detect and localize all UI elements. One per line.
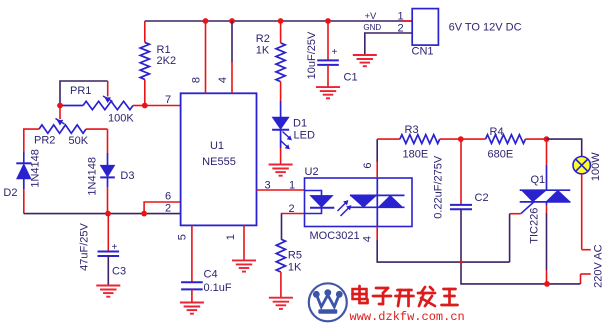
label U2 pin 2 xyxy=(289,203,295,215)
potentiometer PR1 wiper arrow xyxy=(103,96,113,103)
svg-text:CN1: CN1 xyxy=(412,46,434,58)
label CN1 xyxy=(412,46,434,58)
svg-text:C3: C3 xyxy=(112,266,126,278)
svg-text:D1: D1 xyxy=(293,118,307,130)
wire C2 top lead xyxy=(460,139,462,205)
label R3 xyxy=(405,124,419,136)
wire Q1 gate stub xyxy=(510,213,521,215)
svg-text:R5: R5 xyxy=(288,250,302,262)
potentiometer PR2 body xyxy=(39,125,108,133)
lamp 100W xyxy=(573,157,590,174)
label +V xyxy=(365,11,378,22)
svg-text:100K: 100K xyxy=(108,113,134,125)
node R3/R4/C2 junction xyxy=(458,136,464,142)
wire Q1 bottom dark xyxy=(546,205,548,270)
node pin6 branch junction xyxy=(141,211,147,217)
wire R5 bottom lead xyxy=(280,272,282,298)
node PR1 left junction xyxy=(57,103,63,109)
label pin 7 xyxy=(165,94,171,106)
label R5 xyxy=(288,250,302,274)
wire pin3 U1 to U2 xyxy=(257,189,305,191)
ground C1 xyxy=(316,87,340,98)
ground C4 xyxy=(180,303,204,314)
label U2 MOC3021 xyxy=(310,230,360,242)
resistor R4 xyxy=(486,135,526,144)
label GND xyxy=(363,23,381,32)
resistor R3 xyxy=(400,135,440,144)
ground D1 xyxy=(269,165,293,176)
ground CN1 xyxy=(353,55,377,66)
wire Q1 top red xyxy=(546,139,548,165)
wire D2 bottom lead xyxy=(23,179,25,214)
wire D2 top lead xyxy=(23,152,25,163)
ground C3 xyxy=(96,286,120,297)
LED D1 arrows xyxy=(281,132,292,150)
label U2 pin 4 xyxy=(362,236,374,242)
label R3 value xyxy=(403,149,429,161)
wire D1 bottom lead xyxy=(280,130,282,165)
wire pin1 xyxy=(243,225,245,260)
svg-text:C4: C4 xyxy=(204,269,218,281)
wire C2 bottom lead xyxy=(461,209,547,284)
svg-text:220V AC: 220V AC xyxy=(593,244,605,287)
svg-text:PR1: PR1 xyxy=(70,85,91,97)
svg-text:R2: R2 xyxy=(256,33,270,45)
connector CN1 body xyxy=(412,9,438,46)
wire C4 bottom lead xyxy=(191,289,193,302)
resistor R5 xyxy=(276,239,285,272)
wire R3 left lead xyxy=(377,138,400,140)
ground U1 pin1 xyxy=(232,260,256,271)
label R1 value xyxy=(157,44,177,67)
wire pin4 red xyxy=(231,62,233,93)
wire Q1 gate vertical xyxy=(509,214,511,262)
wire Q1 bottom red xyxy=(546,270,548,284)
svg-text:1: 1 xyxy=(289,180,295,192)
label U1 NE555 xyxy=(202,156,236,168)
label Q1 TIC226 xyxy=(529,208,541,244)
wire AC terminal 2 xyxy=(581,274,591,284)
svg-text:R4: R4 xyxy=(490,126,504,138)
label R4 xyxy=(490,126,504,138)
triac inside U2 xyxy=(350,178,405,227)
label pin 8 xyxy=(190,77,202,83)
svg-text:10uF/25V: 10uF/25V xyxy=(306,31,318,79)
svg-text:680E: 680E xyxy=(488,149,514,161)
op-amp U1 NE555 body xyxy=(181,93,257,225)
svg-text:2: 2 xyxy=(165,203,171,215)
opto-triac U2 MOC3021 body xyxy=(305,178,413,227)
label D3 xyxy=(120,170,134,182)
label pin 2 xyxy=(165,203,171,215)
node D3 junction xyxy=(105,211,111,217)
wire pin5 xyxy=(191,225,193,281)
wire +V top rail xyxy=(145,20,412,22)
node R4/Q1/lamp junction xyxy=(544,136,550,142)
svg-text:LED: LED xyxy=(294,130,315,142)
svg-text:47uF/25V: 47uF/25V xyxy=(78,222,90,270)
svg-text:C2: C2 xyxy=(475,192,489,204)
logo url xyxy=(350,310,465,324)
node bottom junction xyxy=(544,281,550,287)
label C3 value xyxy=(78,222,90,270)
label C3 xyxy=(112,266,126,278)
wire CN1 pin1 stub xyxy=(402,20,412,22)
wire R1 top lead xyxy=(144,21,146,42)
wire C1 bottom lead xyxy=(327,65,329,87)
wire R2 bottom lead xyxy=(280,82,282,117)
svg-text:6: 6 xyxy=(165,191,171,203)
wire PR2 wiper lead xyxy=(59,106,61,120)
capacitor C4 xyxy=(181,282,203,289)
svg-text:C1: C1 xyxy=(344,72,358,84)
wire U2 pin2 to R5 xyxy=(282,214,305,240)
svg-text:8: 8 xyxy=(190,77,202,83)
svg-text:4: 4 xyxy=(362,236,374,242)
svg-text:NE555: NE555 xyxy=(202,156,236,168)
svg-text:50K: 50K xyxy=(69,135,89,147)
svg-text:GND: GND xyxy=(363,23,381,32)
svg-text:TIC226: TIC226 xyxy=(529,208,541,244)
label D1 LED xyxy=(294,130,315,142)
wire R4 left lead xyxy=(461,138,486,140)
wire U2 pin6 red xyxy=(376,162,378,178)
svg-text:6V TO 12V DC: 6V TO 12V DC xyxy=(449,22,522,34)
triac Q1 xyxy=(520,190,571,205)
label R4 value xyxy=(488,149,514,161)
label PR1 value xyxy=(108,113,134,125)
LED emission arrows U2 xyxy=(338,201,352,217)
logo text dianzikaifawang xyxy=(353,286,458,306)
svg-text:D2: D2 xyxy=(3,187,17,199)
svg-text:U2: U2 xyxy=(305,166,319,178)
label D2 value 1N4148 xyxy=(30,149,42,188)
node rail junction R2 xyxy=(278,18,284,24)
svg-text:PR2: PR2 xyxy=(34,135,55,147)
node gate crossing dot xyxy=(459,261,462,264)
svg-text:1: 1 xyxy=(225,234,237,240)
wire pin7 to U1 xyxy=(145,105,181,107)
label U2 xyxy=(305,166,319,178)
wire R4 right lead xyxy=(525,138,546,140)
label C3 plus xyxy=(112,242,118,253)
svg-text:2: 2 xyxy=(398,23,404,35)
wire lamp bottom xyxy=(581,174,583,250)
label CN1 pin 2 xyxy=(398,23,404,35)
label pin 3 xyxy=(265,180,271,192)
label pin 4 xyxy=(217,77,229,83)
label PR2 xyxy=(34,135,55,147)
wire pin4 dark xyxy=(231,21,233,62)
label C1 plus xyxy=(332,47,338,58)
wire Q1 top blue xyxy=(546,165,548,190)
wire R2 top lead xyxy=(280,21,282,43)
label PR1 xyxy=(70,85,91,97)
wire R1 bottom lead xyxy=(144,79,146,105)
capacitor C1 xyxy=(317,60,339,65)
wire C3 top lead xyxy=(107,214,109,252)
label 220V AC xyxy=(593,244,605,287)
wire CN1 pin2 GND xyxy=(365,33,412,55)
wire PR2 left lead xyxy=(24,129,39,152)
wire pin6 branch xyxy=(144,202,181,214)
label U1 xyxy=(210,140,224,152)
svg-text:100W: 100W xyxy=(590,152,602,181)
svg-text:+: + xyxy=(332,47,338,58)
capacitor C2 xyxy=(450,205,472,209)
svg-text:Q1: Q1 xyxy=(531,174,546,186)
resistor R2 xyxy=(276,43,285,82)
label D2 xyxy=(3,187,17,199)
wire AC terminal 1 xyxy=(582,249,591,251)
svg-text:+V: +V xyxy=(365,11,378,22)
label C1 xyxy=(344,72,358,84)
wire U2 pin4 dark xyxy=(377,240,509,262)
resistor R1 xyxy=(140,42,149,79)
svg-text:1N4148: 1N4148 xyxy=(30,149,42,188)
label C1 value xyxy=(306,31,318,79)
node rail junction pin8 xyxy=(203,18,209,24)
wire pin8 xyxy=(205,21,207,93)
wire C1 top lead xyxy=(327,21,329,60)
svg-text:4: 4 xyxy=(217,77,229,83)
diode D3 xyxy=(100,165,115,177)
label D3 value 1N4148 xyxy=(86,157,98,196)
node R1/PR1/pin7 junction xyxy=(142,103,148,109)
logo dzkfw W mark xyxy=(309,283,347,321)
label U2 pin 6 xyxy=(362,162,374,168)
label CN1 pin 1 xyxy=(398,11,404,23)
svg-text:1: 1 xyxy=(398,11,404,23)
svg-text:1K: 1K xyxy=(256,45,270,57)
wire R3 right lead xyxy=(440,138,461,140)
svg-text:0.1uF: 0.1uF xyxy=(204,282,232,294)
potentiometer PR1 body xyxy=(60,101,145,109)
svg-text:0.22uF/275V: 0.22uF/275V xyxy=(433,155,445,219)
wire D3 bottom lead xyxy=(107,177,109,213)
svg-text:3: 3 xyxy=(265,180,271,192)
potentiometer PR2 wiper arrow xyxy=(56,119,65,126)
label 100W xyxy=(590,152,602,181)
wire C3 bottom lead xyxy=(107,256,109,286)
label U2 pin 1 xyxy=(289,180,295,192)
wire D3 top lead xyxy=(107,129,109,165)
wire U2 pin6 dark xyxy=(376,139,378,162)
wire PR1 wiper link box xyxy=(60,81,108,106)
label PR2 value xyxy=(69,135,89,147)
wire lamp top xyxy=(547,139,582,156)
node rail junction C1 xyxy=(325,18,331,24)
wire U2 pin4 red xyxy=(376,227,378,241)
svg-text:+: + xyxy=(112,242,118,253)
label C4 xyxy=(204,269,218,281)
svg-text:2K2: 2K2 xyxy=(157,55,177,67)
wire Q1 gate diagonal xyxy=(521,202,534,214)
svg-text:5: 5 xyxy=(176,234,188,240)
label R2 xyxy=(256,33,270,57)
wire bottom net xyxy=(547,283,581,285)
LED D1 xyxy=(272,117,289,130)
svg-text:1K: 1K xyxy=(288,262,302,274)
svg-text:7: 7 xyxy=(165,94,171,106)
label 6V TO 12V DC xyxy=(449,22,522,34)
capacitor C3 xyxy=(98,252,120,257)
svg-text:R3: R3 xyxy=(405,124,419,136)
label C2 value xyxy=(433,155,445,219)
svg-text:6: 6 xyxy=(362,162,374,168)
svg-text:D3: D3 xyxy=(120,170,134,182)
svg-text:180E: 180E xyxy=(403,149,429,161)
node rail junction pin4 xyxy=(229,18,235,24)
svg-text:1N4148: 1N4148 xyxy=(86,157,98,196)
label pin 6 xyxy=(165,191,171,203)
wire threshold net xyxy=(24,213,181,215)
LED inside U2 xyxy=(305,191,335,214)
label Q1 xyxy=(531,174,546,186)
svg-text:U1: U1 xyxy=(210,140,224,152)
ground R5 xyxy=(269,298,293,309)
label C4 value xyxy=(204,282,232,294)
svg-text:www.dzkfw.com.cn: www.dzkfw.com.cn xyxy=(350,310,465,324)
label pin 1 xyxy=(225,234,237,240)
label D1 xyxy=(293,118,307,130)
label C2 xyxy=(475,192,489,204)
diode D2 xyxy=(16,163,31,179)
svg-text:MOC3021: MOC3021 xyxy=(310,230,360,242)
label pin 5 xyxy=(176,234,188,240)
